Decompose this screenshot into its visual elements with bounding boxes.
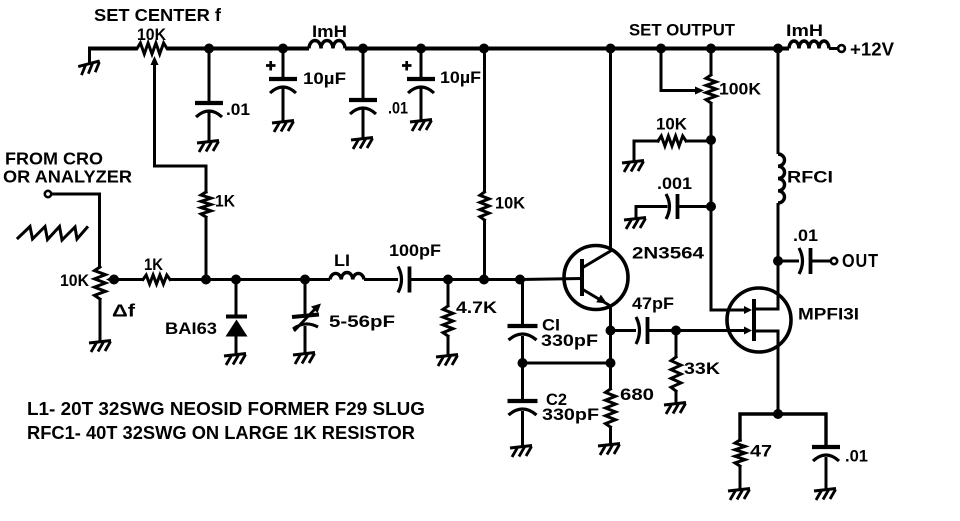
- wire node C down to C-01b: [362, 49, 365, 100]
- node M: [773, 409, 783, 419]
- wire node E down to R-10K: [483, 49, 486, 193]
- terminal OUT: [831, 258, 837, 264]
- inductor L1: [330, 273, 364, 280]
- svg-text:SET CENTER f: SET CENTER f: [94, 5, 221, 25]
- wire node L to C-01out: [778, 260, 799, 263]
- wire input terminal to pot: [52, 194, 100, 267]
- svg-text:33K: 33K: [684, 359, 721, 378]
- svg-text:ImH: ImH: [312, 22, 347, 41]
- wire rail node G to node H: [661, 47, 711, 51]
- capacitor 10uF (first): [269, 77, 297, 81]
- pot wiper arrow (set center): [151, 56, 159, 65]
- capacitor .01 (second): [349, 98, 377, 102]
- capacitor C2 330pF: [508, 399, 538, 403]
- node E: [479, 44, 489, 54]
- capacitor 100pF: [398, 267, 402, 293]
- svg-text:47pF: 47pF: [632, 294, 674, 313]
- node D: [416, 44, 426, 54]
- wire R-33K to ground: [675, 391, 678, 403]
- node R: [443, 275, 453, 285]
- inductor RFC1: [778, 154, 785, 203]
- svg-text:.01: .01: [845, 448, 868, 466]
- wire node W down to C2: [521, 363, 524, 400]
- node L: [773, 256, 783, 266]
- wire R-10K down to node S: [483, 220, 486, 280]
- wire L1 to C-100pF: [364, 278, 398, 281]
- ground under 680: [598, 444, 620, 456]
- wire C-10uFa to ground: [282, 88, 285, 121]
- node S: [479, 275, 489, 285]
- node N wiper: [109, 275, 119, 285]
- wire R-4.7K to ground: [447, 336, 450, 355]
- wire RFC1 down to node L: [777, 203, 780, 261]
- svg-text:+12V: +12V: [850, 39, 895, 60]
- wire node D down to C-10uFb: [420, 49, 423, 79]
- arrow gate1: [744, 306, 752, 314]
- wire node R down to R-4.7K: [447, 280, 450, 307]
- wire C2 to ground: [521, 411, 524, 446]
- wire node H down to R-100K: [710, 49, 713, 76]
- wire node V to MPF131 gate2: [676, 329, 747, 332]
- wire node Q to L1: [305, 278, 330, 281]
- wire rail node D to node E: [421, 47, 484, 51]
- wire R-1Kv down to node O: [205, 217, 208, 280]
- resistor 47: [735, 440, 745, 466]
- svg-text:100pF: 100pF: [389, 241, 441, 260]
- wire node M right to C-01c: [778, 414, 826, 446]
- wire R-47 to ground: [739, 466, 742, 489]
- wire node J left to R-10Kb: [686, 140, 711, 143]
- terminal +12V: [838, 45, 845, 52]
- wire node V down to R-33K: [675, 331, 678, 358]
- wire node I down to RFC1: [777, 49, 780, 155]
- svg-text:OUT: OUT: [842, 251, 879, 271]
- wire Q2 drain up to node L: [777, 261, 780, 309]
- svg-text:.01: .01: [793, 227, 818, 245]
- wire node T down to C1: [521, 280, 524, 326]
- wire diode to ground: [235, 336, 238, 354]
- capacitor .01 (bottom): [812, 445, 840, 449]
- wire Q1 collector up to node F: [609, 49, 612, 252]
- ground under 4.7K: [436, 355, 458, 367]
- wire rail node E to node F: [484, 47, 611, 51]
- svg-text:47: 47: [750, 442, 772, 461]
- resistor 4.7K: [443, 306, 453, 336]
- wire R-680 to ground: [609, 427, 612, 444]
- wire C-01a to ground: [208, 112, 211, 141]
- wire node X down to R-680: [609, 363, 612, 389]
- svg-text:OR ANALYZER: OR ANALYZER: [3, 167, 132, 187]
- ground under 47: [728, 489, 750, 501]
- wire node A down to C-01a: [208, 49, 211, 103]
- wire node B down to C-10uFa: [282, 49, 285, 79]
- wire set-center wiper down: [155, 62, 207, 192]
- pot wiper arrow (delta f): [106, 276, 114, 284]
- svg-text:LI: LI: [334, 252, 350, 270]
- wire .001 right plate to node K: [678, 205, 711, 208]
- terminal FROM-CRO: [45, 191, 51, 197]
- node X: [606, 358, 616, 368]
- diode BA163 cathode bar: [226, 315, 247, 319]
- wire node T to Q1 base: [520, 279, 582, 280]
- transistor Q1 emitter arrow: [596, 295, 609, 308]
- node A: [204, 44, 214, 54]
- wire R-1K to node O: [170, 278, 206, 281]
- wire pot down to ground: [99, 299, 102, 341]
- ground under 33K: [664, 403, 686, 415]
- resistor R-setcenter 10K pot element: [137, 43, 167, 54]
- wire node G down-right to pot wiper: [661, 49, 698, 91]
- pot wiper arrow (set output): [695, 87, 704, 95]
- svg-text:L1- 20T 32SWG NEOSID FORMER F: L1- 20T 32SWG NEOSID FORMER F29 SLUG: [27, 399, 425, 419]
- sawtooth waveform symbol: [18, 227, 87, 241]
- capacitor .01 (output): [799, 248, 803, 274]
- svg-text:MPFI3I: MPFI3I: [798, 305, 859, 324]
- wire C-100pF to node R: [410, 278, 448, 281]
- transistor Q1 emitter stroke: [582, 289, 611, 306]
- wire C-01c to ground: [825, 457, 828, 489]
- wire C-01b to ground: [362, 109, 365, 138]
- wire node M left to R-47: [740, 414, 778, 440]
- svg-text:10K: 10K: [60, 271, 90, 290]
- svg-text:100K: 100K: [719, 80, 762, 99]
- node P: [231, 275, 241, 285]
- svg-text:.01: .01: [388, 99, 408, 118]
- ground under trimmer: [293, 353, 315, 365]
- svg-text:1K: 1K: [144, 256, 163, 274]
- wire node W to node X: [523, 362, 611, 365]
- ground under 10K-b: [622, 161, 644, 173]
- diode BA163 anode triangle: [226, 320, 248, 337]
- wire Q1 emitter down to node U: [609, 306, 612, 331]
- svg-text:RFCI: RFCI: [787, 168, 833, 187]
- svg-text:RFC1- 40T 32SWG ON LARGE 1K R: RFC1- 40T 32SWG ON LARGE 1K RESISTOR: [27, 423, 415, 443]
- wire Q2 source down to node M: [777, 331, 780, 414]
- svg-text:330pF: 330pF: [542, 406, 599, 424]
- transistor Q1 base bar: [580, 259, 584, 296]
- capacitor 47pF: [636, 317, 640, 344]
- resistor 1K (vertical): [201, 192, 211, 217]
- node W: [518, 358, 528, 368]
- svg-text:.01: .01: [226, 100, 250, 119]
- svg-text:680: 680: [620, 385, 654, 404]
- node J: [706, 135, 716, 145]
- transistor Q1 collector stroke: [582, 251, 611, 268]
- wire rail pot to node A: [167, 47, 209, 51]
- svg-text:BAI63: BAI63: [165, 319, 217, 338]
- inductor 1mH (first): [309, 41, 345, 49]
- ground under delta-f pot: [89, 341, 111, 353]
- node U: [606, 326, 616, 336]
- transistor Q1 2N3564 circle: [564, 246, 628, 310]
- trimmer arrow: [294, 304, 321, 332]
- ground under C2: [510, 446, 532, 458]
- ground under 10uF second: [410, 120, 432, 132]
- ground under .01 second: [351, 138, 373, 150]
- node T: [515, 275, 525, 285]
- transistor Q2 drain stroke: [754, 308, 778, 311]
- wire C-47pF to node V: [648, 329, 676, 332]
- wire node P to node Q: [236, 278, 305, 281]
- wire node J down to node K: [710, 140, 713, 207]
- node O: [201, 275, 211, 285]
- transistor Q2 source stroke: [754, 330, 778, 333]
- node B: [278, 44, 288, 54]
- resistor 100K pot element: [706, 75, 716, 103]
- capacitor 10uF (second): [407, 77, 435, 81]
- wire node K down to MPF131 gate1: [711, 207, 747, 311]
- svg-text:Δf: Δf: [112, 301, 135, 321]
- node H: [706, 44, 716, 54]
- wire node U to C-47pF: [611, 329, 637, 332]
- capacitor trimmer 5-56pF top plate: [292, 315, 319, 318]
- wire rail node F to node G: [611, 47, 662, 51]
- resistor 10K (to ground, horizontal): [658, 136, 686, 146]
- svg-text:2N3564: 2N3564: [632, 244, 705, 263]
- ground under .01 bottom: [814, 489, 836, 501]
- wire rail node C to node D: [363, 47, 421, 51]
- wire R-100K to node J: [710, 103, 713, 140]
- wire C1 to node W: [521, 336, 524, 363]
- capacitor 10uF (first) polarity +: [266, 61, 276, 71]
- wire R-10Kb left and down to ground: [634, 141, 658, 161]
- transistor Q2 MPF131 circle: [727, 288, 791, 352]
- svg-text:1K: 1K: [215, 193, 235, 211]
- wire node R to node S: [448, 278, 484, 281]
- wire inductor to +12V terminal: [829, 47, 838, 50]
- wire top supply rail left segment: [88, 47, 137, 51]
- transistor Q2 channel bar: [752, 299, 756, 341]
- node V: [671, 326, 681, 336]
- svg-text:10K: 10K: [137, 25, 167, 44]
- ground under BA163: [224, 354, 246, 366]
- svg-text:4.7K: 4.7K: [456, 298, 498, 317]
- ground top-left: [78, 61, 101, 75]
- svg-text:10K: 10K: [656, 115, 688, 134]
- wire node Q down to trimmer: [304, 280, 307, 315]
- resistor 680: [606, 389, 616, 427]
- svg-text:330pF: 330pF: [541, 332, 598, 350]
- capacitor 10uF (second) polarity +: [402, 61, 412, 71]
- wire trimmer to ground: [304, 326, 307, 353]
- node I: [773, 44, 783, 54]
- resistor 10K pot (delta-f): [95, 267, 106, 299]
- resistor 33K: [671, 357, 681, 391]
- svg-text:10µF: 10µF: [303, 69, 346, 88]
- wire rail inductor to node C: [345, 47, 363, 51]
- wire rail node I to inductor L3: [778, 47, 789, 51]
- node G: [656, 44, 666, 54]
- node Q: [300, 275, 310, 285]
- wire rail node A to node B: [209, 47, 283, 51]
- wire node P down to diode: [235, 280, 238, 317]
- ground under .01 first: [197, 141, 219, 153]
- wire rail-left drop to ground: [88, 49, 91, 64]
- resistor 1K (horizontal): [143, 275, 170, 284]
- wire node O to node P: [206, 278, 236, 281]
- svg-text:10µF: 10µF: [440, 68, 481, 87]
- arrow gate2: [744, 327, 752, 335]
- ground under 10uF first: [272, 121, 294, 133]
- wire node U down to node X: [609, 331, 612, 364]
- node K: [706, 202, 716, 212]
- svg-text:FROM CRO: FROM CRO: [5, 149, 103, 169]
- wire node S to node T: [484, 278, 520, 281]
- ground under .001: [624, 218, 646, 230]
- svg-text:10K: 10K: [495, 194, 526, 213]
- capacitor C1 330pF: [508, 324, 538, 328]
- svg-text:5-56pF: 5-56pF: [329, 312, 395, 331]
- node C: [358, 44, 368, 54]
- wire C-01out to OUT terminal: [811, 260, 831, 263]
- wire .001 left plate down to ground: [636, 207, 666, 219]
- svg-text:SET OUTPUT: SET OUTPUT: [629, 21, 736, 40]
- svg-text:.001: .001: [657, 175, 692, 193]
- wire wiper to R-1K: [114, 278, 143, 281]
- wire C-10uFb to ground: [420, 88, 423, 120]
- wire rail node H to node I: [711, 47, 778, 51]
- node F: [606, 44, 616, 54]
- resistor 10K (vertical dropper): [480, 192, 489, 220]
- svg-text:ImH: ImH: [786, 21, 823, 40]
- capacitor .01 (first): [195, 101, 223, 105]
- inductor 1mH (second): [789, 41, 829, 48]
- capacitor trimmer bottom plate: [293, 324, 318, 329]
- capacitor .001: [666, 194, 670, 219]
- wire rail node B to inductor L2: [283, 47, 309, 51]
